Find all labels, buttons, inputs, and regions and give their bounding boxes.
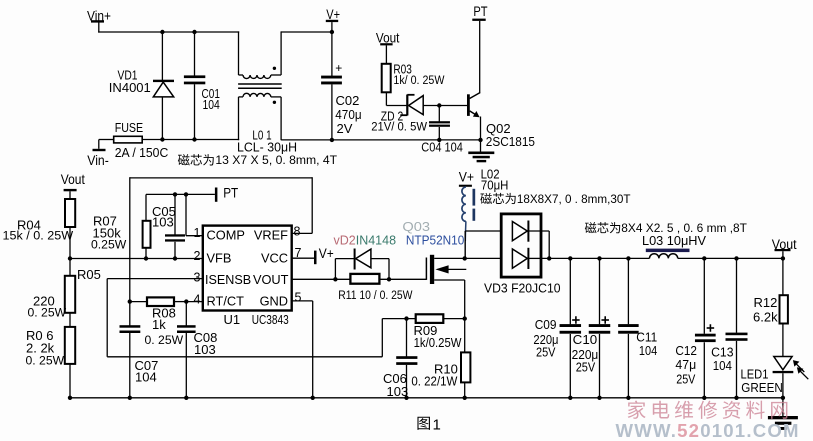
resistor R04 15k/0.25W <box>65 199 75 227</box>
wire ZD2 to Q02 base <box>423 105 467 107</box>
wire pin5 GND to rail <box>292 300 313 302</box>
svg-text:25V: 25V <box>536 344 556 359</box>
node junction drain/L02 <box>463 256 467 260</box>
capacitor C08 103 <box>185 302 187 326</box>
resistor R07 150k <box>145 194 147 220</box>
svg-text:COMP: COMP <box>207 228 245 243</box>
svg-text:104: 104 <box>639 343 657 358</box>
svg-text:103: 103 <box>387 384 409 399</box>
capacitor C10 220u/25V <box>597 256 601 260</box>
svg-text:IN4001: IN4001 <box>109 80 151 95</box>
svg-text:FUSE: FUSE <box>115 120 144 135</box>
wire aux ground rail <box>281 139 480 141</box>
resistor R10 0.22/1W <box>461 352 470 382</box>
svg-text:WWW.520101.COM: WWW.520101.COM <box>616 420 800 441</box>
svg-text:104: 104 <box>203 97 220 112</box>
wire drain node to VD3 bottom diode <box>465 257 502 259</box>
resistor R12 6.2k <box>780 295 788 323</box>
svg-text:VCC: VCC <box>261 250 288 265</box>
svg-text:RT/CT: RT/CT <box>207 293 245 308</box>
svg-text:L03 10μHV: L03 10μHV <box>642 234 707 248</box>
svg-text:5: 5 <box>295 291 302 305</box>
svg-text:1: 1 <box>194 226 201 240</box>
wire COMP node to PT <box>146 193 215 195</box>
wire L02 to VD3 top diode <box>465 230 501 232</box>
inductor L01 common-mode choke <box>238 31 240 75</box>
wire pin3 ISENSB <box>107 278 203 280</box>
svg-text:2V: 2V <box>337 121 353 136</box>
capacitor C12 47u/25V <box>702 256 706 260</box>
svg-text:C02: C02 <box>336 93 360 108</box>
svg-text:vD2IN4148: vD2IN4148 <box>334 233 397 247</box>
svg-text:1k: 1k <box>152 317 166 332</box>
wire VREF loop right vertical to pin8 <box>311 177 313 233</box>
wire VREF loop top <box>130 177 312 179</box>
svg-text:Vout: Vout <box>61 171 85 187</box>
node junction pin1 branch <box>184 192 188 196</box>
svg-text:2: 2 <box>194 249 201 263</box>
svg-text:1k/ 0. 25W: 1k/ 0. 25W <box>393 73 444 87</box>
wire top input rail <box>98 31 239 33</box>
watermark red text <box>628 401 788 419</box>
svg-text:104: 104 <box>135 370 157 385</box>
svg-text:C10: C10 <box>573 332 598 347</box>
svg-text:PT: PT <box>473 3 488 19</box>
svg-text:V+: V+ <box>459 170 474 185</box>
svg-text:0. 25W: 0. 25W <box>145 333 184 347</box>
ground (aux, below Q02) <box>468 152 494 155</box>
note L03 core text <box>585 222 620 233</box>
svg-text:4: 4 <box>194 292 201 306</box>
svg-text:PT: PT <box>223 185 238 201</box>
svg-text:0.25W: 0.25W <box>91 238 127 252</box>
node junction R11-left <box>333 277 337 281</box>
svg-text:13 X7 X 5, 0. 8mm, 4T: 13 X7 X 5, 0. 8mm, 4T <box>215 153 337 167</box>
svg-text:47μ: 47μ <box>675 357 696 372</box>
diode VD2 IN4148 (speed-up) <box>334 259 336 280</box>
ground (output) <box>768 416 798 419</box>
wire PT to Q02 collector <box>479 21 481 93</box>
node junction C04-top <box>437 103 441 107</box>
wire fuse rail <box>99 139 114 141</box>
svg-text:R11 10 / 0. 25W: R11 10 / 0. 25W <box>338 288 413 302</box>
capacitor C01 <box>194 32 196 76</box>
svg-text:VFB: VFB <box>207 250 232 265</box>
svg-text:1k/0.25W: 1k/0.25W <box>414 336 462 350</box>
svg-text:2A / 150C: 2A / 150C <box>115 145 169 160</box>
svg-text:V+: V+ <box>319 246 334 261</box>
node junction VD3 output <box>547 256 551 260</box>
node junction C05-top <box>173 192 177 196</box>
svg-text:1: 1 <box>433 416 441 433</box>
op-amp U1 UC3843 (PWM controller IC) <box>203 226 292 311</box>
resistor R05 220/0.25W <box>65 276 75 313</box>
wire R05 to R06 <box>69 313 71 327</box>
svg-text:C04 104: C04 104 <box>421 140 463 155</box>
wire R06 to ground rail <box>69 364 71 398</box>
resistor R03 1k/0.25W <box>382 64 391 93</box>
capacitor C05 103 <box>174 194 176 234</box>
capacitor C11 104 <box>626 256 630 260</box>
svg-text:GREEN: GREEN <box>741 380 783 395</box>
svg-text:103: 103 <box>152 215 174 230</box>
svg-text:C09: C09 <box>535 317 557 332</box>
svg-text:C12: C12 <box>675 343 697 358</box>
wire VFB line <box>70 258 203 260</box>
svg-text:R12: R12 <box>754 295 778 310</box>
svg-text:6.2k: 6.2k <box>753 310 778 325</box>
node junction VD1-top <box>160 30 164 34</box>
wire ground rail (bottom) <box>70 397 783 399</box>
node junction C06-top <box>404 316 408 320</box>
diode VD1 <box>161 32 163 81</box>
node junction VD1-bottom <box>160 137 164 141</box>
svg-text:2SC1815: 2SC1815 <box>486 134 535 149</box>
zener diode ZD2 21V/0.5W <box>406 95 408 116</box>
svg-text:VD3 F20JC10: VD3 F20JC10 <box>484 281 561 295</box>
svg-text:0. 22/1W: 0. 22/1W <box>411 375 457 389</box>
svg-text:103: 103 <box>194 342 216 357</box>
capacitor C09 220u/25V <box>568 256 572 260</box>
capacitor C07 104 <box>129 302 131 326</box>
inductor L02 70uH (blue) <box>462 187 466 221</box>
svg-text:104: 104 <box>713 358 732 373</box>
svg-text:25V: 25V <box>576 359 596 374</box>
wire R03 to ZD2 <box>385 92 387 105</box>
svg-text:Vout: Vout <box>376 30 400 46</box>
svg-text:Vin-: Vin- <box>87 152 109 168</box>
svg-text:NTP52N10: NTP52N10 <box>406 232 464 247</box>
wire pin6 VOUT to gate network <box>292 278 351 280</box>
wire Vin+ drop <box>98 22 100 32</box>
wire output rail <box>541 257 650 259</box>
transistor Q02 2SC1815 <box>467 94 470 116</box>
note L01 core text <box>178 154 214 165</box>
resistor R09 1k/0.25W <box>416 314 444 323</box>
note L02 core text <box>480 193 515 204</box>
node junction C01-top <box>192 30 196 34</box>
capacitor C04 104 <box>438 106 440 122</box>
node PT terminal mid <box>215 188 218 202</box>
svg-text:GND: GND <box>260 293 288 308</box>
svg-text:8: 8 <box>294 224 301 238</box>
svg-text:0. 25W: 0. 25W <box>28 306 67 320</box>
resistor R06 2.2k/0.25W <box>65 327 75 364</box>
wire VREF loop left vertical <box>129 177 131 301</box>
resistor R11 10/0.25W <box>350 274 379 284</box>
caption 图1 <box>417 417 429 430</box>
svg-text:U1: U1 <box>224 312 241 327</box>
LED LED1 GREEN <box>774 357 792 370</box>
svg-text:0. 25W: 0. 25W <box>26 353 65 367</box>
node V+ terminal (VCC pin7) <box>292 257 315 259</box>
svg-text:UC3843: UC3843 <box>252 313 289 327</box>
svg-text:VREF: VREF <box>254 228 288 243</box>
transistor Q03 NTP52N10 (N-MOSFET) <box>425 258 427 280</box>
node junction R08-left/VREF <box>128 299 132 303</box>
capacitor C13 104 <box>734 256 738 260</box>
svg-text:70μH: 70μH <box>481 178 509 193</box>
node junction R11-right <box>387 277 391 281</box>
wire source to R10 <box>464 280 466 352</box>
svg-text:8X4 X2. 5 , 0. 6 mm ,8T: 8X4 X2. 5 , 0. 6 mm ,8T <box>621 221 747 235</box>
svg-text:470μ: 470μ <box>335 107 361 122</box>
svg-text:LCL- 30μH: LCL- 30μH <box>237 139 297 154</box>
svg-text:18X8X7, 0 . 8mm,30T: 18X8X7, 0 . 8mm,30T <box>517 192 631 206</box>
wire V+ link <box>281 31 332 33</box>
wire LED to ground <box>782 373 784 416</box>
svg-text:25V: 25V <box>676 372 695 387</box>
capacitor C06 103 <box>406 319 408 357</box>
node junction R08-right/C08 <box>184 299 188 303</box>
svg-text:+: + <box>335 61 342 75</box>
svg-text:3: 3 <box>194 271 201 285</box>
wire pin4 RT/CT <box>186 301 203 303</box>
svg-text:VOUT: VOUT <box>253 272 289 287</box>
diode VD3 F20JC10 (dual) <box>501 214 541 277</box>
wire pin1 COMP connection <box>185 194 187 235</box>
svg-text:21V/ 0. 5W: 21V/ 0. 5W <box>371 119 427 133</box>
node junction C01-bottom <box>192 137 196 141</box>
resistor R08 1k <box>130 301 147 303</box>
svg-text:15k / 0. 25W: 15k / 0. 25W <box>3 229 74 243</box>
node junction source/R09 <box>463 316 467 320</box>
svg-text:R05: R05 <box>77 267 101 282</box>
node junction VFB divider <box>68 256 72 260</box>
svg-text:ISENSB: ISENSB <box>205 273 251 287</box>
wire R04 to R05 <box>69 227 71 276</box>
